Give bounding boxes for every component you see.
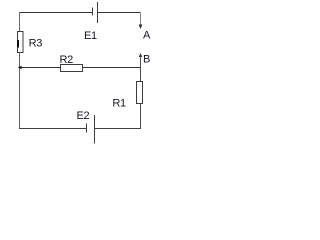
svg-text:E1: E1 [84, 30, 97, 42]
wire stub to node A [140, 12, 142, 26]
svg-text:E2: E2 [77, 110, 90, 122]
battery E1 short plate [92, 8, 94, 16]
resistor R2 [61, 65, 83, 72]
wire right vertical lower (R1 to bottom wire) [140, 104, 142, 130]
svg-text:R2: R2 [60, 54, 74, 66]
resistor R3 [18, 32, 24, 53]
wire middle-left horizontal (left rail to R2) [20, 67, 61, 69]
resistor R1 [137, 82, 143, 104]
wire top-right horizontal (E1 right plate to corner) [98, 12, 142, 14]
svg-text:R3: R3 [29, 37, 43, 49]
battery E2 long plate [94, 115, 96, 144]
wire stub node B down to R1 [140, 55, 142, 82]
battery E2 short plate [86, 124, 88, 133]
wire left vertical lower (R3 to bottom wire) [19, 53, 21, 129]
svg-text:R1: R1 [112, 98, 126, 110]
wire bottom-right horizontal (E2 to right rail) [95, 128, 142, 130]
wire middle-right horizontal (R2 to node B rail) [83, 67, 141, 69]
svg-text:B: B [143, 54, 150, 66]
svg-text:A: A [143, 30, 151, 42]
wire left vertical upper (top wire to R3) [19, 12, 21, 32]
current arrow on R3 left edge [17, 40, 19, 48]
arrowhead at middle-left junction (pointing left) [18, 66, 22, 69]
arrowhead at node A (pointing down) [139, 25, 143, 30]
wire top-left horizontal (to E1 left plate) [19, 12, 93, 14]
battery E1 long plate [97, 2, 99, 23]
arrowhead at node B (pointing up) [139, 53, 143, 57]
wire bottom-left horizontal (left rail to E2) [19, 128, 87, 130]
